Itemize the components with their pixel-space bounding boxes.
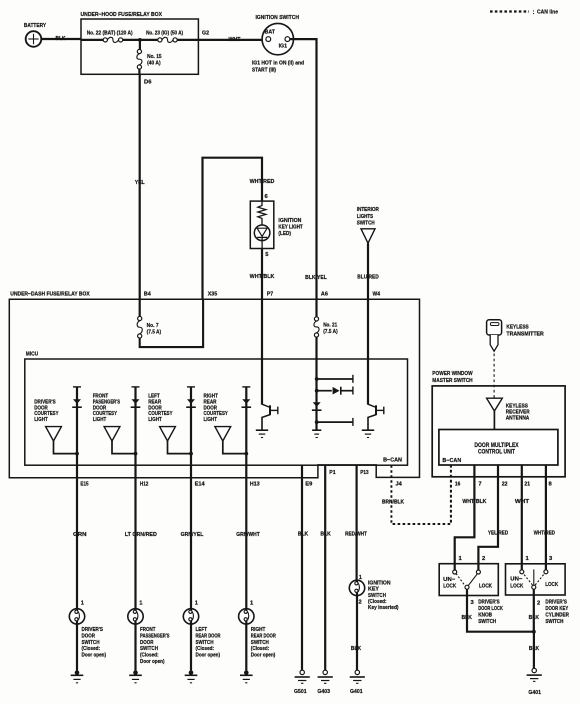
svg-text:BLK/YEL: BLK/YEL bbox=[305, 275, 327, 281]
ground bbox=[189, 670, 194, 675]
svg-text:LIGHT: LIGHT bbox=[148, 417, 162, 423]
ground G401 bbox=[355, 670, 359, 674]
transistor Q2 bbox=[368, 404, 376, 407]
svg-text:SWITCH: SWITCH bbox=[368, 593, 386, 599]
svg-text:1: 1 bbox=[139, 601, 143, 607]
diode driver's door courtesy light bbox=[73, 386, 81, 388]
svg-text:DRIVER'S: DRIVER'S bbox=[82, 627, 104, 633]
wire H12 column bbox=[134, 387, 136, 610]
svg-text:No. 22 (BAT) (120 A): No. 22 (BAT) (120 A) bbox=[87, 30, 133, 36]
svg-text:1: 1 bbox=[459, 556, 463, 562]
svg-text:2: 2 bbox=[359, 599, 362, 605]
wire E14 column bbox=[190, 387, 192, 610]
svg-text:WHT: WHT bbox=[515, 499, 530, 505]
svg-text:No. 21: No. 21 bbox=[323, 323, 337, 329]
svg-text:LOCK: LOCK bbox=[510, 583, 523, 589]
svg-text:BLK: BLK bbox=[529, 615, 540, 621]
svg-text:DRIVER'S: DRIVER'S bbox=[545, 600, 567, 606]
svg-text:21: 21 bbox=[524, 482, 530, 488]
svg-text:G501: G501 bbox=[294, 689, 307, 695]
door multiplex control unit bbox=[439, 430, 558, 466]
svg-text:BLK: BLK bbox=[529, 646, 540, 652]
pin E9 / wire BLK to G501 bbox=[301, 465, 303, 670]
svg-text:P1: P1 bbox=[329, 470, 336, 476]
svg-text:SWITCH: SWITCH bbox=[357, 221, 375, 227]
svg-text:RED/WHT: RED/WHT bbox=[345, 531, 367, 537]
svg-text:KNOB: KNOB bbox=[478, 613, 492, 619]
svg-text:BLK: BLK bbox=[298, 532, 309, 538]
fuse No.7 (7.5A) on B4 wire bbox=[139, 299, 141, 316]
svg-text:GRN/WHT: GRN/WHT bbox=[236, 532, 260, 538]
svg-text:(7.5 A): (7.5 A) bbox=[147, 329, 162, 335]
wire right rear door switch to ground bbox=[245, 624, 247, 670]
svg-text:CYLINDER: CYLINDER bbox=[545, 613, 569, 619]
node junction E15 bbox=[75, 452, 79, 456]
svg-text:YEL: YEL bbox=[135, 180, 145, 186]
svg-text:ANTENNA: ANTENNA bbox=[506, 416, 530, 422]
svg-text:(LED): (LED) bbox=[278, 231, 291, 237]
svg-text:BLK: BLK bbox=[351, 646, 362, 652]
wire front passenger's door switch to ground bbox=[134, 624, 136, 670]
svg-text:DOOR: DOOR bbox=[140, 640, 154, 646]
svg-text:No. 23 (IG) (50 A): No. 23 (IG) (50 A) bbox=[146, 30, 183, 36]
svg-text:LOCK: LOCK bbox=[545, 582, 558, 588]
branch stub bottom bbox=[317, 421, 353, 423]
fuse No.22 (BAT)(120A) bbox=[103, 38, 107, 42]
svg-text:BLK: BLK bbox=[320, 532, 331, 538]
dashed pin 16 bbox=[450, 465, 452, 524]
CAN line legend bbox=[490, 10, 529, 12]
svg-text:LIGHT: LIGHT bbox=[204, 417, 218, 423]
svg-text:LIGHTS: LIGHTS bbox=[357, 214, 374, 220]
svg-text:G403: G403 bbox=[317, 689, 330, 695]
svg-text:KEYLESS: KEYLESS bbox=[506, 324, 528, 330]
svg-text:UNDER−HOOD FUSE/RELAY BOX: UNDER−HOOD FUSE/RELAY BOX bbox=[81, 12, 163, 18]
svg-text:(Closed:: (Closed: bbox=[140, 653, 159, 659]
svg-text:SWITCH: SWITCH bbox=[196, 640, 214, 646]
svg-text:H13: H13 bbox=[250, 482, 261, 488]
wire P7 into MICU (transistor Q1 collector) bbox=[261, 299, 263, 404]
svg-text:SWITCH: SWITCH bbox=[82, 640, 100, 646]
wire X35 loop to ignition key light bbox=[203, 158, 263, 300]
svg-text:D6: D6 bbox=[144, 80, 152, 86]
svg-text:1: 1 bbox=[526, 556, 530, 562]
junction node bbox=[138, 38, 142, 42]
keyless transmitter bbox=[487, 320, 502, 335]
wire D6 to B4 (YEL) bbox=[139, 74, 141, 299]
svg-text:LOCK: LOCK bbox=[443, 583, 456, 589]
svg-text:(Closed:: (Closed: bbox=[368, 599, 387, 605]
svg-text:No. 15: No. 15 bbox=[147, 54, 162, 60]
wire main bus inside box bbox=[81, 39, 103, 41]
svg-text:CONTROL UNIT: CONTROL UNIT bbox=[478, 449, 515, 456]
wire driver's door switch to ground bbox=[76, 624, 78, 670]
wire A6 into MICU diode chain bbox=[315, 337, 317, 430]
transistor Q1 bbox=[262, 404, 270, 407]
svg-text::: : bbox=[533, 10, 535, 16]
svg-text:WHT: WHT bbox=[229, 37, 241, 43]
svg-text:IG1: IG1 bbox=[279, 43, 288, 49]
ground (MICU internal) bbox=[312, 429, 321, 431]
svg-text:P7: P7 bbox=[267, 292, 274, 298]
wire left rear door switch to ground bbox=[190, 624, 192, 670]
svg-text:(7.5 A): (7.5 A) bbox=[323, 329, 338, 335]
wire IG1 to A6 (BLK/YEL) bbox=[290, 39, 317, 299]
MICU box bbox=[25, 359, 408, 465]
power window master switch box bbox=[432, 386, 565, 477]
svg-text:UN−: UN− bbox=[443, 577, 455, 583]
svg-text:GRN/YEL: GRN/YEL bbox=[181, 532, 204, 538]
svg-text:E15: E15 bbox=[80, 482, 89, 488]
pin 21 wire WHT bbox=[521, 465, 523, 570]
svg-text:X35: X35 bbox=[208, 292, 218, 298]
svg-text:Door open): Door open) bbox=[82, 653, 107, 659]
svg-text:No. 7: No. 7 bbox=[147, 323, 159, 329]
ground G501 bbox=[300, 670, 304, 674]
svg-text:KEY LIGHT: KEY LIGHT bbox=[278, 225, 303, 231]
ground bbox=[75, 670, 80, 675]
wire key light to P7 (WHT/BLK) bbox=[261, 249, 263, 300]
svg-text:3: 3 bbox=[471, 600, 475, 606]
svg-text:SWITCH: SWITCH bbox=[251, 640, 269, 646]
diode D-down bbox=[313, 402, 321, 407]
resistor (zigzag) bbox=[258, 201, 266, 225]
under-hood fuse/relay box bbox=[81, 19, 198, 74]
svg-text:G401: G401 bbox=[528, 690, 541, 696]
ground G401 (right) bbox=[532, 668, 536, 672]
wire E15 column bbox=[76, 387, 78, 610]
svg-text:B4: B4 bbox=[144, 292, 152, 298]
wire BLK to G401 bbox=[356, 596, 358, 671]
svg-text:REAR DOOR: REAR DOOR bbox=[196, 633, 221, 639]
wire H13 column bbox=[245, 387, 247, 610]
diode left rear door courtesy light bbox=[187, 386, 195, 388]
svg-text:A6: A6 bbox=[321, 292, 329, 298]
svg-text:DOOR LOCK: DOOR LOCK bbox=[478, 606, 503, 612]
wire G2 / WHT to ignition switch bbox=[198, 39, 265, 41]
svg-text:LT GRN/RED: LT GRN/RED bbox=[125, 532, 157, 538]
svg-text:2: 2 bbox=[482, 556, 485, 562]
svg-text:1: 1 bbox=[195, 601, 199, 607]
svg-text:START (III): START (III) bbox=[252, 68, 276, 74]
wire knob switch pin 3 bbox=[467, 589, 534, 631]
svg-text:WHT/RED: WHT/RED bbox=[534, 530, 555, 536]
ground bbox=[244, 670, 249, 675]
wire interior lights switch to W4 (BLU/RED) bbox=[367, 243, 369, 299]
svg-text:P13: P13 bbox=[360, 470, 369, 476]
svg-text:G401: G401 bbox=[350, 689, 363, 695]
svg-text:WHT/BLK: WHT/BLK bbox=[250, 274, 275, 280]
diode front passenger's door courtesy light bbox=[132, 386, 140, 388]
ground bbox=[133, 670, 138, 675]
diode D-right bbox=[317, 390, 332, 392]
driver's door key cylinder switch bbox=[506, 564, 566, 595]
svg-text:E14: E14 bbox=[195, 482, 206, 488]
svg-text:16: 16 bbox=[455, 482, 461, 488]
svg-text:SWITCH: SWITCH bbox=[478, 619, 496, 625]
pin 22 wire YEL/RED bbox=[478, 465, 498, 570]
svg-text:Door open): Door open) bbox=[196, 653, 221, 659]
svg-text:WHT/BLK: WHT/BLK bbox=[462, 499, 487, 505]
svg-text:RIGHT: RIGHT bbox=[251, 627, 266, 633]
svg-text:LEFT: LEFT bbox=[196, 627, 208, 633]
svg-text:7: 7 bbox=[478, 482, 481, 488]
CAN line J4 (BRN/BLK dashed) bbox=[391, 465, 451, 524]
svg-text:REAR DOOR: REAR DOOR bbox=[251, 633, 276, 639]
node junction H13 bbox=[244, 452, 248, 456]
svg-text:SWITCH: SWITCH bbox=[545, 619, 563, 625]
svg-text:22: 22 bbox=[502, 482, 508, 488]
svg-text:B−CAN: B−CAN bbox=[442, 458, 461, 464]
svg-text:BLU/RED: BLU/RED bbox=[357, 274, 379, 280]
svg-text:LOCK: LOCK bbox=[479, 583, 492, 589]
svg-text:CAN line: CAN line bbox=[537, 10, 559, 16]
svg-text:INTERIOR: INTERIOR bbox=[357, 207, 379, 213]
keyless receiver antenna bbox=[487, 398, 503, 411]
svg-text:3: 3 bbox=[549, 556, 553, 562]
svg-text:(Closed:: (Closed: bbox=[82, 646, 101, 652]
branch stub top bbox=[317, 378, 353, 380]
svg-text:IGNITION: IGNITION bbox=[368, 581, 391, 587]
svg-text:8: 8 bbox=[549, 482, 553, 488]
wire B4 fuse to X35 bbox=[140, 299, 203, 347]
svg-text:IGNITION SWITCH: IGNITION SWITCH bbox=[256, 15, 300, 21]
svg-text:BAT: BAT bbox=[265, 30, 276, 36]
svg-text:SWITCH: SWITCH bbox=[140, 646, 158, 652]
ignition switch bbox=[262, 23, 293, 54]
pin P1 / wire BLK to G403 bbox=[324, 465, 326, 670]
svg-text:BLK: BLK bbox=[56, 36, 67, 42]
svg-text:6: 6 bbox=[265, 194, 269, 200]
svg-text:G2: G2 bbox=[202, 31, 209, 37]
driver's door lock knob switch bbox=[439, 564, 498, 596]
svg-text:DRIVER'S: DRIVER'S bbox=[478, 600, 500, 606]
diode right rear door courtesy light bbox=[242, 386, 250, 388]
wire battery to under-hood box (BLK) bbox=[41, 38, 81, 40]
fuse No.15 (40A) bbox=[139, 40, 141, 50]
node junction BLK bbox=[532, 630, 536, 634]
node junction E14 bbox=[189, 452, 193, 456]
svg-text:Key inserted): Key inserted) bbox=[368, 605, 399, 611]
svg-text:UN−: UN− bbox=[510, 577, 522, 583]
under-dash fuse/relay box bbox=[9, 299, 419, 478]
LED bbox=[254, 225, 270, 241]
wire key cylinder pin 2 bbox=[533, 589, 535, 631]
svg-text:5: 5 bbox=[265, 252, 269, 258]
svg-text:FRONT: FRONT bbox=[140, 627, 156, 633]
svg-text:1: 1 bbox=[81, 601, 85, 607]
pin P13 / wire RED/WHT bbox=[356, 465, 358, 580]
svg-text:WHT/RED: WHT/RED bbox=[250, 179, 275, 185]
battery bbox=[26, 31, 42, 47]
svg-text:IG1 HOT in ON (II) and: IG1 HOT in ON (II) and bbox=[252, 60, 304, 66]
svg-text:LIGHT: LIGHT bbox=[93, 417, 107, 423]
ignition key light (LED) box bbox=[250, 201, 273, 248]
svg-text:DOOR KEY: DOOR KEY bbox=[545, 606, 568, 612]
svg-text:W4: W4 bbox=[373, 292, 381, 298]
svg-text:Door open): Door open) bbox=[140, 659, 165, 665]
ground G403 bbox=[323, 670, 327, 674]
svg-text:TRANSMITTER: TRANSMITTER bbox=[506, 331, 544, 337]
fuse No.21 (7.5A) on A6 wire bbox=[315, 299, 317, 317]
svg-text:PASSENGER'S: PASSENGER'S bbox=[140, 633, 170, 639]
svg-text:H12: H12 bbox=[140, 482, 149, 488]
svg-text:BRN/BLK: BRN/BLK bbox=[382, 500, 405, 506]
svg-text:POWER WINDOW: POWER WINDOW bbox=[432, 371, 473, 377]
svg-text:DOOR: DOOR bbox=[82, 633, 96, 639]
pin 7 wire WHT/BLK bbox=[455, 465, 475, 570]
svg-text:B−CAN: B−CAN bbox=[383, 458, 402, 464]
svg-text:E9: E9 bbox=[305, 482, 313, 488]
node junction H12 bbox=[134, 452, 138, 456]
svg-text:MASTER SWITCH: MASTER SWITCH bbox=[432, 378, 472, 384]
dashed wire transmitter to antenna bbox=[493, 354, 495, 410]
svg-text:MICU: MICU bbox=[26, 351, 38, 357]
svg-text:KEY: KEY bbox=[368, 587, 379, 593]
svg-text:(Closed:: (Closed: bbox=[251, 646, 270, 652]
svg-text:2: 2 bbox=[537, 600, 540, 606]
svg-text:(40 A): (40 A) bbox=[147, 60, 161, 66]
svg-text:GRN: GRN bbox=[73, 532, 87, 538]
svg-text:(Closed:: (Closed: bbox=[196, 646, 215, 652]
svg-text:IGNITION: IGNITION bbox=[278, 218, 301, 224]
svg-text:BATTERY: BATTERY bbox=[24, 23, 46, 29]
svg-text:YEL/RED: YEL/RED bbox=[488, 530, 508, 536]
pin 8 wire WHT/RED bbox=[545, 465, 547, 570]
wire BLK to G401 bbox=[533, 632, 535, 669]
svg-text:J4: J4 bbox=[396, 482, 403, 488]
svg-text:BLK: BLK bbox=[462, 615, 473, 621]
svg-text:UNDER−DASH FUSE/RELAY BOX: UNDER−DASH FUSE/RELAY BOX bbox=[10, 291, 90, 297]
wire W4 into MICU (transistor Q2 collector) bbox=[367, 299, 369, 404]
fuse No.23 (IG)(50A) bbox=[158, 38, 162, 42]
svg-text:LIGHT: LIGHT bbox=[34, 417, 48, 423]
svg-text:Door open): Door open) bbox=[251, 653, 276, 659]
svg-text:1: 1 bbox=[250, 601, 254, 607]
